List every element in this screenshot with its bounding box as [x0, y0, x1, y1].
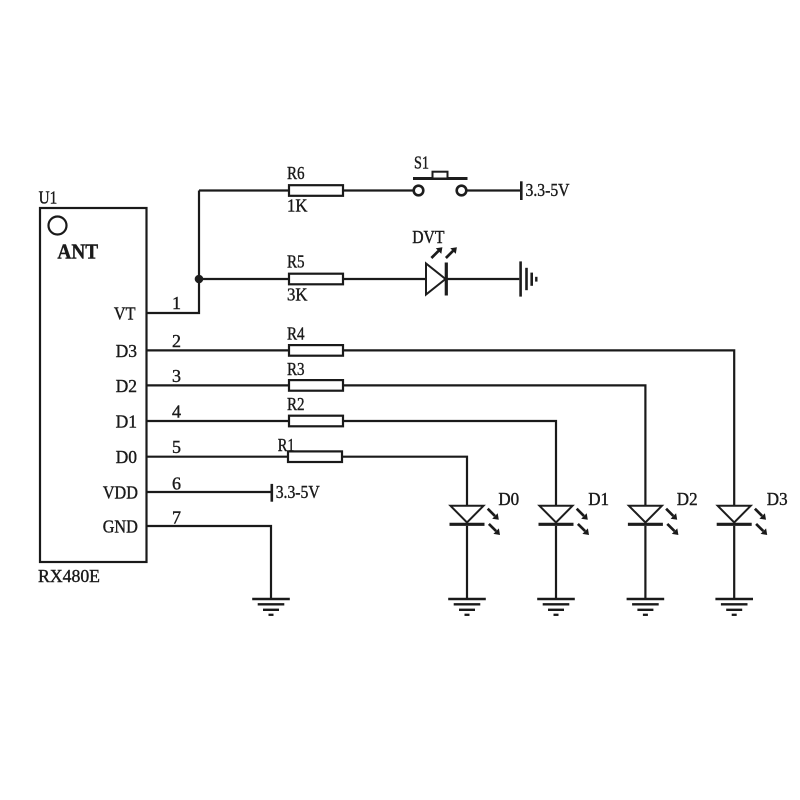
svg-text:R4: R4 — [287, 324, 305, 344]
svg-text:2: 2 — [172, 331, 181, 351]
svg-text:3: 3 — [172, 366, 181, 386]
svg-text:D3: D3 — [767, 489, 788, 509]
svg-text:U1: U1 — [39, 188, 58, 208]
svg-text:3.3-5V: 3.3-5V — [276, 482, 320, 502]
svg-text:3.3-5V: 3.3-5V — [526, 180, 570, 200]
svg-text:R1: R1 — [278, 435, 295, 455]
svg-text:DVT: DVT — [412, 227, 444, 247]
svg-text:D1: D1 — [116, 412, 137, 432]
svg-text:4: 4 — [172, 401, 181, 421]
svg-text:R6: R6 — [287, 163, 305, 183]
svg-text:VT: VT — [114, 304, 136, 324]
svg-text:ANT: ANT — [57, 239, 98, 263]
svg-text:D2: D2 — [116, 376, 137, 396]
svg-text:RX480E: RX480E — [38, 566, 100, 586]
svg-text:D0: D0 — [116, 447, 137, 467]
svg-text:D3: D3 — [116, 341, 137, 361]
svg-text:7: 7 — [172, 507, 181, 527]
svg-text:1: 1 — [172, 293, 181, 313]
svg-text:6: 6 — [172, 473, 181, 493]
svg-text:GND: GND — [103, 517, 138, 537]
svg-text:D0: D0 — [498, 489, 519, 509]
svg-text:3K: 3K — [287, 285, 307, 305]
svg-text:1K: 1K — [287, 196, 307, 216]
svg-text:D1: D1 — [588, 489, 609, 509]
svg-text:R2: R2 — [287, 394, 305, 414]
svg-text:R3: R3 — [287, 359, 305, 379]
svg-text:S1: S1 — [414, 153, 429, 173]
svg-text:D2: D2 — [677, 489, 698, 509]
svg-text:5: 5 — [172, 437, 181, 457]
svg-text:VDD: VDD — [103, 483, 138, 503]
svg-text:R5: R5 — [287, 252, 305, 272]
